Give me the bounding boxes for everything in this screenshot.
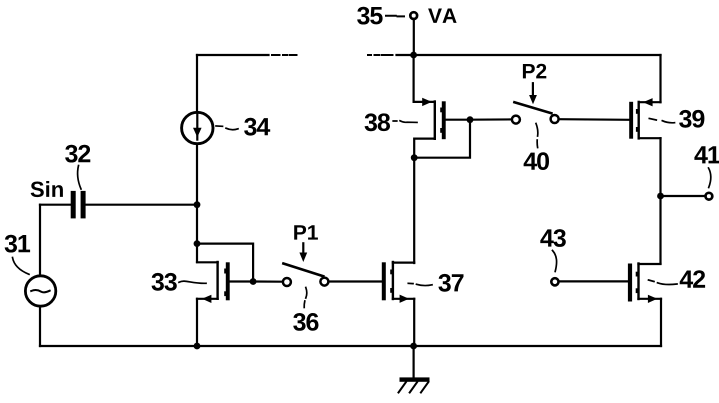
transistor 33	[197, 261, 218, 263]
current source 34	[182, 112, 213, 143]
label 41	[694, 146, 719, 163]
voltage source 31	[25, 276, 55, 306]
wire 33 column upper	[196, 205, 198, 262]
switch 36 wire right	[329, 280, 382, 282]
label 32	[65, 145, 90, 163]
node 33 gate tap junction	[194, 240, 201, 247]
transistor 37	[382, 262, 386, 300]
switch 36 left contact	[283, 278, 291, 286]
label VA	[428, 9, 457, 23]
node 33 gate-switch junction	[250, 278, 257, 285]
wire 33 gate tap	[197, 244, 253, 282]
label Sin	[31, 181, 63, 197]
wire current source bottom to node	[196, 144, 198, 205]
wire top bus solid left	[197, 54, 269, 56]
label 34	[244, 118, 270, 136]
label P2 with arrow	[523, 64, 546, 79]
terminal 43	[551, 278, 558, 285]
node 38 gate junction	[467, 116, 474, 123]
wire top bus dashed left	[272, 54, 297, 56]
wire output node to 42 drain	[659, 196, 661, 264]
transistor 39	[629, 102, 633, 139]
wire 33 source down	[196, 299, 198, 346]
node VA bus junction	[410, 52, 417, 59]
wire input horizontal right	[86, 204, 197, 206]
wire top bus dashed right	[368, 54, 393, 56]
switch 40 wire right	[559, 118, 629, 121]
label 40	[524, 152, 549, 170]
transistor 38	[414, 101, 435, 103]
switch 36 wire left	[253, 280, 282, 282]
wire left column bottom	[39, 306, 41, 346]
wire 38 gate-drain tie	[414, 120, 470, 158]
label 42	[680, 270, 705, 288]
capacitor 32	[71, 191, 76, 219]
node ground junction	[410, 343, 417, 350]
wire 43 to 42 gate	[559, 280, 628, 282]
wire input horizontal left	[40, 204, 71, 206]
wire 37 source to ground bus	[413, 299, 415, 346]
wire left column top	[39, 205, 41, 276]
node 38 drain junction	[411, 154, 418, 161]
label 39	[679, 110, 704, 128]
wire VA column to 38 source	[413, 55, 415, 102]
label 38	[365, 113, 390, 131]
node input-column junction	[194, 201, 201, 208]
label 37	[438, 274, 463, 292]
wire VA terminal to bus	[413, 20, 415, 55]
switch 40 blade	[514, 102, 551, 113]
switch 36 right contact	[320, 278, 328, 286]
switch 36 blade	[283, 264, 323, 277]
label 35	[357, 7, 383, 25]
ground	[413, 346, 415, 378]
label 31	[5, 235, 31, 253]
wire current source top	[196, 55, 198, 112]
label 43	[540, 229, 566, 247]
label P1 with arrow	[294, 225, 318, 239]
label 36	[293, 313, 318, 331]
node bottom-left junction	[194, 343, 201, 350]
terminal VA 35	[410, 12, 417, 19]
node output junction	[657, 193, 664, 200]
switch 40 left contact	[512, 116, 520, 124]
wire bottom bus	[40, 345, 661, 347]
wire 42 source down	[660, 299, 662, 346]
wire 39 drain to output node	[659, 138, 661, 196]
wire output node to terminal	[661, 195, 705, 197]
transistor 42	[628, 264, 632, 302]
label 33	[152, 273, 177, 291]
switch 40 wire left	[470, 118, 512, 120]
wire right column top	[659, 55, 661, 102]
terminal 41	[706, 193, 713, 200]
wire top bus solid right	[397, 54, 661, 56]
wire 38 drain to 37 drain	[413, 158, 415, 263]
switch 40 right contact	[551, 115, 559, 123]
